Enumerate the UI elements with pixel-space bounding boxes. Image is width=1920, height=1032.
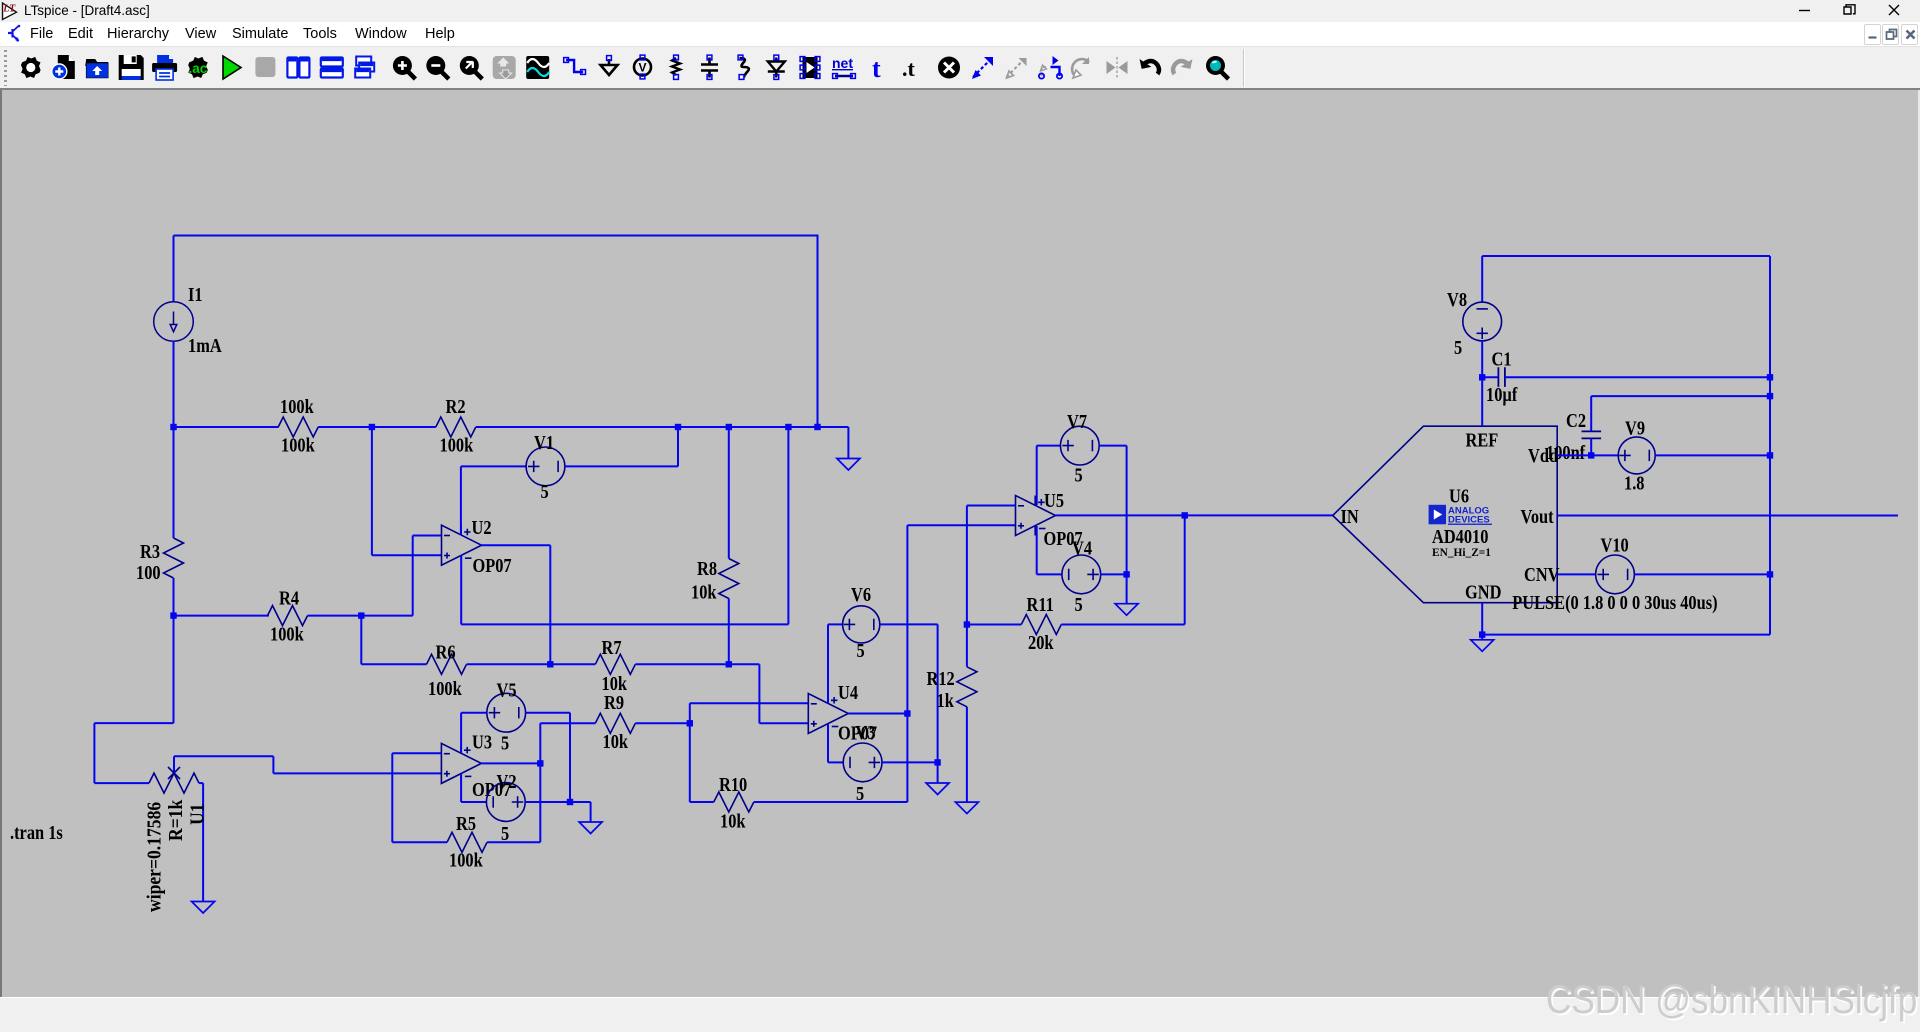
toolbar icon: move bbox=[1039, 56, 1062, 79]
wire V10 right lead to rail bbox=[1634, 573, 1770, 575]
wire stub down to ground bbox=[590, 802, 592, 822]
wire V1 minus lead down to U2 V+ pin bbox=[460, 466, 462, 534]
toolbar icon: find bbox=[1206, 56, 1229, 79]
wire V3 right lead bbox=[882, 761, 938, 763]
svg-text:10k: 10k bbox=[720, 810, 746, 832]
capacitor C1 bbox=[1498, 367, 1505, 387]
resistor R12 bbox=[957, 667, 977, 707]
resistor R2 bbox=[436, 417, 476, 437]
wire U3 V- pin down bbox=[460, 774, 462, 802]
toolbar icon: redo (disabled) bbox=[1173, 57, 1192, 74]
wire R8 bottom lead bbox=[728, 599, 730, 665]
svg-text:R3: R3 bbox=[140, 541, 160, 563]
junction top-rail drop on main node bbox=[814, 424, 820, 430]
svg-text:U1: U1 bbox=[187, 803, 209, 825]
wire inverting node to U2 riser bbox=[361, 615, 412, 617]
wire U5 V- pin down bbox=[1036, 526, 1038, 574]
junction R8 bottom on R7 node bbox=[726, 661, 732, 667]
wire top rail from I1 to right drop bbox=[174, 235, 819, 237]
svg-text:wiper=0.17586: wiper=0.17586 bbox=[144, 802, 166, 912]
ground pot branch bbox=[192, 902, 215, 914]
wire main node segment to R1 bbox=[174, 426, 279, 428]
wire into U2 inverting input bbox=[413, 535, 442, 537]
svg-text:5: 5 bbox=[1075, 464, 1083, 486]
wire R10 left lead bbox=[690, 801, 714, 803]
wire into U5 inverting input bbox=[967, 505, 1016, 507]
wire V1 branch riser bbox=[677, 427, 679, 466]
svg-text:10µf: 10µf bbox=[1486, 384, 1518, 406]
svg-text:V2: V2 bbox=[497, 771, 517, 793]
toolbar icon: waveform viewer bbox=[526, 56, 549, 79]
wire R4 left lead bbox=[174, 615, 269, 617]
svg-text:R2: R2 bbox=[446, 396, 466, 418]
toolbar icon: print (printer) bbox=[152, 55, 177, 80]
wire U4 output bbox=[848, 713, 907, 715]
wire wiper stub bbox=[173, 756, 175, 772]
op-amp U3 bbox=[441, 743, 481, 783]
wire I1 top lead bbox=[173, 236, 175, 303]
wire R4 right lead bbox=[308, 615, 362, 617]
toolbar icon: place text bbox=[872, 54, 881, 83]
junction V5/V2 supply return bbox=[567, 799, 573, 805]
svg-text:R7: R7 bbox=[602, 637, 622, 659]
junction C1 on REF branch bbox=[1479, 374, 1485, 380]
Analog Devices logo bbox=[1429, 505, 1492, 526]
wire R11 feedback riser bbox=[1184, 515, 1186, 624]
junction V9 on rail bbox=[1767, 452, 1773, 458]
wire V1 right lead bbox=[565, 465, 679, 467]
wire R7 right lead bbox=[635, 663, 759, 665]
toolbar icon: zoom full extents bbox=[460, 56, 483, 79]
svg-text:R4: R4 bbox=[279, 587, 299, 609]
toolbar icon: tile vertical bbox=[287, 58, 309, 78]
wire V6 return drop bbox=[937, 624, 939, 783]
junction U2 feedback on R6-R7 wire bbox=[547, 661, 553, 667]
wire U5 output to ADC IN bbox=[1056, 514, 1333, 516]
app icon bbox=[0, 0, 24, 22]
wire C2 top lead bbox=[1590, 396, 1592, 431]
wire V2 left lead bbox=[461, 801, 487, 803]
op-amp U2 bbox=[442, 525, 482, 565]
toolbar icon: place ground bbox=[601, 56, 618, 75]
svg-text:100k: 100k bbox=[281, 434, 315, 456]
wire C2 bottom lead bbox=[1590, 438, 1592, 455]
wire feedback riser R5 to R9 bbox=[539, 723, 541, 842]
wire V4 left lead bbox=[1037, 573, 1063, 575]
wire right supply rail bbox=[1769, 256, 1771, 635]
wire V8 top lead bbox=[1481, 256, 1483, 302]
svg-text:U2: U2 bbox=[472, 517, 492, 539]
svg-text:5: 5 bbox=[1454, 337, 1462, 359]
svg-text:5: 5 bbox=[501, 823, 509, 845]
toolbar icon: save (floppy) bbox=[119, 55, 144, 80]
junction U5 output / R11 feedback bbox=[1182, 512, 1188, 518]
wire V8 top to right rail bbox=[1482, 255, 1770, 257]
svg-text:U5: U5 bbox=[1044, 490, 1064, 512]
toolbar icon: tile horizontal bbox=[321, 58, 343, 78]
svg-text:AD4010: AD4010 bbox=[1432, 526, 1488, 548]
resistor R6 bbox=[427, 654, 467, 674]
svg-text:C2: C2 bbox=[1566, 410, 1586, 432]
wire R9 right lead bbox=[635, 722, 690, 724]
wire U2 output bbox=[482, 544, 551, 546]
op-amp U5 bbox=[1016, 496, 1056, 536]
svg-text:GND: GND bbox=[1465, 581, 1501, 603]
wire CNV pin to V10 bbox=[1557, 573, 1595, 575]
wire V6 to U4 V+ pin bbox=[827, 624, 829, 703]
resistor R11 bbox=[1021, 615, 1061, 635]
voltage source V2 bbox=[486, 783, 525, 822]
toolbar icon: place resistor bbox=[672, 55, 680, 79]
wire V5 right lead bbox=[525, 712, 570, 714]
toolbar icon: zoom in bbox=[393, 56, 416, 79]
wire R10 right lead to output riser bbox=[754, 801, 908, 803]
wire Vdd pin to V9 bbox=[1557, 454, 1618, 456]
wire stub down to ground bbox=[847, 427, 849, 459]
resistor R4 bbox=[268, 606, 308, 626]
wire C2 top lead to rail bbox=[1591, 395, 1770, 397]
wire V4 right lead bbox=[1100, 573, 1126, 575]
wire inverting node riser/drop bbox=[689, 703, 691, 802]
wire V8 bottom / REF pin lead bbox=[1481, 341, 1483, 426]
voltage source V1 bbox=[526, 447, 565, 486]
wire R8 top lead bbox=[728, 427, 730, 559]
resistor R8 bbox=[719, 559, 739, 599]
svg-text:1mA: 1mA bbox=[188, 335, 222, 357]
junction I1 / main node bbox=[170, 424, 176, 430]
toolbar icon: cascade windows bbox=[355, 57, 374, 78]
svg-text:R5: R5 bbox=[456, 813, 476, 835]
svg-text:1.8: 1.8 bbox=[1624, 472, 1644, 494]
wire R11 left lead bbox=[967, 624, 1021, 626]
voltage source V8 bbox=[1463, 302, 1502, 341]
svg-text:100k: 100k bbox=[440, 434, 474, 456]
wire pot left loop top bbox=[94, 722, 173, 724]
toolbar icon: place diode bbox=[768, 55, 785, 79]
resistor R7 bbox=[595, 654, 635, 674]
ground U4 supplies bbox=[926, 783, 949, 795]
ground R12 bbox=[955, 802, 978, 814]
svg-text:R11: R11 bbox=[1027, 594, 1054, 616]
wire V3 left lead bbox=[828, 761, 843, 763]
svg-text:5: 5 bbox=[857, 640, 865, 662]
toolbar icon: mirror (disabled) bbox=[1107, 57, 1128, 78]
wire wiper jog down bbox=[272, 756, 274, 773]
wire U5 inverting node drop to R12 bbox=[966, 506, 968, 667]
wire R11 right lead bbox=[1061, 624, 1184, 626]
toolbar icon: drag (disabled) bbox=[1072, 57, 1089, 78]
toolbar icon: edit simulation cmd (.ac gear) bbox=[184, 53, 211, 82]
svg-text:V1: V1 bbox=[534, 432, 554, 454]
wire V5 left lead bbox=[461, 712, 487, 714]
svg-text:Vout: Vout bbox=[1521, 506, 1554, 528]
svg-text:CNV: CNV bbox=[1524, 564, 1559, 586]
wire inverting node down to R6 bbox=[360, 616, 362, 665]
voltage source V3 bbox=[843, 743, 882, 782]
svg-text:V5: V5 bbox=[497, 679, 517, 701]
wire V1 left lead bbox=[461, 465, 527, 467]
junction R4 tap on R3 branch bbox=[170, 612, 176, 618]
junction C2 on Vdd wire bbox=[1588, 452, 1594, 458]
wire V5 return drop bbox=[569, 713, 571, 802]
junction V6/V3 supply return bbox=[934, 759, 940, 765]
svg-text:V8: V8 bbox=[1447, 289, 1467, 311]
wire into U5 noninverting input bbox=[907, 524, 1015, 526]
svg-text:U6: U6 bbox=[1449, 485, 1469, 507]
wire Vout net bbox=[1557, 515, 1898, 517]
toolbar icon: open (folder) bbox=[85, 59, 108, 78]
wire V6 left lead bbox=[828, 623, 843, 625]
svg-text:100k: 100k bbox=[449, 849, 483, 871]
toolbar icon: new schematic (document+) bbox=[52, 55, 75, 79]
wire R3 top lead bbox=[173, 427, 175, 538]
wire R9 left lead bbox=[540, 722, 595, 724]
junction C1 on rail bbox=[1767, 374, 1773, 380]
resistor R3 bbox=[164, 538, 184, 578]
wire drop to U4 noninverting input bbox=[758, 664, 760, 723]
junction R1-R2 / U2 noninverting tap bbox=[369, 424, 375, 430]
ground U3 supplies bbox=[579, 822, 602, 834]
wire V6 right lead bbox=[880, 623, 938, 625]
wire R2 to ground stub corner bbox=[476, 426, 849, 428]
resistor R1 (named 100k) bbox=[278, 417, 318, 437]
wire I1 bottom lead bbox=[173, 341, 175, 427]
junction U2 negative-rail riser on main node bbox=[785, 424, 791, 430]
svg-text:U4: U4 bbox=[838, 682, 858, 704]
toolbar icon: delete (scissors) bbox=[938, 57, 960, 79]
wire C1 right lead to rail bbox=[1505, 376, 1770, 378]
junction U3 output / feedback riser bbox=[537, 760, 543, 766]
voltage source V9 bbox=[1618, 437, 1655, 474]
svg-text:.tran 1s: .tran 1s bbox=[10, 822, 63, 844]
svg-text:OP07: OP07 bbox=[473, 555, 512, 577]
wire riser to main node bbox=[787, 427, 789, 624]
title bar bbox=[0, 0, 1920, 22]
wire V7 right lead bbox=[1099, 445, 1127, 447]
wire V5 to U3 V+ pin bbox=[460, 713, 462, 753]
wire U4 V- pin down bbox=[827, 724, 829, 762]
wire pot left loop vertical bbox=[93, 723, 95, 783]
svg-text:R10: R10 bbox=[719, 774, 747, 796]
resistor R9 bbox=[595, 713, 635, 733]
junction C2 on rail bbox=[1767, 393, 1773, 399]
junction V7/V4 supply return bbox=[1123, 571, 1129, 577]
toolbar icon: halt (disabled grey) bbox=[255, 57, 275, 77]
wire vertical drop to main node bbox=[817, 236, 819, 428]
svg-text:V6: V6 bbox=[851, 584, 871, 606]
junction U4 output / U5 riser bbox=[904, 710, 910, 716]
menu bar bbox=[0, 22, 1920, 47]
svg-text:100k: 100k bbox=[428, 678, 462, 700]
toolbar icon: label net bbox=[634, 55, 651, 79]
toolbar icon: paste (disabled) bbox=[1007, 58, 1027, 78]
svg-text:IN: IN bbox=[1341, 506, 1359, 528]
wire U2 output feedback drop bbox=[549, 545, 551, 664]
svg-text:EN_Hi_Z=1: EN_Hi_Z=1 bbox=[1432, 546, 1491, 559]
wire into U2 noninverting input bbox=[372, 554, 442, 556]
wire R1 to R2 bbox=[318, 426, 436, 428]
voltage source V4 bbox=[1062, 555, 1101, 594]
watermark bbox=[1546, 980, 1917, 1020]
wire V7 left lead bbox=[1037, 445, 1061, 447]
wire U3 inverting feedback drop bbox=[391, 753, 393, 842]
capacitor C2 bbox=[1582, 431, 1602, 438]
svg-text:5: 5 bbox=[541, 481, 549, 503]
wire supply return drop bbox=[1126, 446, 1128, 604]
svg-text:R12: R12 bbox=[927, 668, 955, 690]
svg-text:R9: R9 bbox=[604, 692, 624, 714]
junction R4 / U2 inverting node bbox=[358, 612, 364, 618]
wire GND pin down bbox=[1481, 603, 1483, 640]
toolbar icon: undo bbox=[1140, 57, 1159, 74]
wire R6 left lead bbox=[361, 663, 426, 665]
svg-text:V3: V3 bbox=[856, 722, 876, 744]
wire R12 bottom lead to ground bbox=[966, 707, 968, 802]
junction GND pin / rail return bbox=[1479, 631, 1485, 637]
toolbar icon: control panel (gear) bbox=[17, 53, 44, 82]
wire into U3 inverting input bbox=[392, 752, 441, 754]
wire pot left lead bbox=[94, 782, 149, 784]
toolbar icon: spice directive bbox=[902, 56, 916, 81]
junction R9/R10/U4 inverting node bbox=[687, 720, 693, 726]
toolbar icon: zoom out bbox=[426, 56, 449, 79]
svg-text:R6: R6 bbox=[436, 641, 456, 663]
svg-text:100k: 100k bbox=[270, 623, 304, 645]
svg-text:10k: 10k bbox=[691, 581, 717, 603]
ground main node bbox=[837, 459, 860, 471]
toolbar icon: place capacitor bbox=[701, 55, 718, 79]
wire into U4 inverting input bbox=[690, 702, 809, 704]
status bar bbox=[0, 997, 1920, 1032]
svg-text:20k: 20k bbox=[1028, 632, 1054, 654]
svg-text:PULSE(0 1.8 0 0 0 30us 40us): PULSE(0 1.8 0 0 0 30us 40us) bbox=[1512, 592, 1717, 615]
wire V2 right lead to ground stub bbox=[525, 801, 591, 803]
svg-text:V10: V10 bbox=[1601, 534, 1629, 556]
toolbar icon: autorange (disabled) bbox=[493, 56, 516, 79]
potentiometer U1 bbox=[149, 767, 199, 793]
wire riser U4 output to U5 noninverting bbox=[906, 525, 908, 802]
toolbar icon: run (green arrow) bbox=[223, 56, 241, 79]
toolbar icon: name net bbox=[832, 55, 855, 78]
wire pot right terminal to ground bbox=[202, 783, 204, 901]
wire V9 right lead to rail bbox=[1655, 454, 1770, 456]
svg-text:10k: 10k bbox=[603, 731, 629, 753]
wire C1 left lead bbox=[1482, 376, 1498, 378]
toolbar icon: place inductor bbox=[738, 55, 749, 79]
wire rail return bottom bbox=[1482, 634, 1770, 636]
voltage source V5 bbox=[487, 693, 526, 732]
svg-text:U3: U3 bbox=[472, 731, 492, 753]
svg-text:I1: I1 bbox=[188, 284, 203, 306]
wire R5 right lead bbox=[487, 841, 540, 843]
ground U6 GND bbox=[1471, 640, 1494, 652]
voltage source V10 bbox=[1596, 555, 1635, 594]
svg-text:1k: 1k bbox=[937, 690, 955, 712]
toolbar icon: draw wire bbox=[564, 58, 586, 75]
svg-text:R=1k: R=1k bbox=[165, 799, 187, 841]
svg-text:C1: C1 bbox=[1492, 348, 1512, 370]
junction R11 tap on U5 inverting node bbox=[964, 621, 970, 627]
wire pot right lead bbox=[199, 782, 203, 784]
svg-text:5: 5 bbox=[856, 783, 864, 805]
wire riser to U2 inverting input bbox=[412, 536, 414, 616]
op-amp U4 bbox=[808, 694, 848, 734]
ADC U6 AD4010 symbol bbox=[1333, 426, 1558, 603]
toolbar icon: place component bbox=[800, 57, 820, 79]
junction V1 branch on main node bbox=[675, 424, 681, 430]
svg-text:R8: R8 bbox=[697, 558, 717, 580]
svg-text:REF: REF bbox=[1466, 429, 1499, 451]
voltage source V6 bbox=[843, 606, 880, 643]
svg-text:100k: 100k bbox=[280, 396, 314, 418]
voltage source V7 bbox=[1060, 426, 1099, 465]
wire wiper into U3 noninverting input bbox=[273, 772, 441, 774]
svg-text:100nf: 100nf bbox=[1546, 442, 1586, 464]
wire R6 to R7 bbox=[467, 663, 596, 665]
MDI child window buttons bbox=[1864, 24, 1881, 45]
wire U3 output bbox=[481, 762, 540, 764]
toolbar icon: duplicate (copy) bbox=[972, 57, 993, 79]
wire U2 V- rail to riser bbox=[461, 623, 788, 625]
wire wiper to U3 jog top bbox=[174, 755, 273, 757]
toolbar bbox=[0, 47, 1920, 90]
junction V10 on rail bbox=[1767, 571, 1773, 577]
window buttons bbox=[1780, 0, 1920, 22]
wire into U4 noninverting input bbox=[759, 722, 808, 724]
svg-text:5: 5 bbox=[501, 732, 509, 754]
svg-text:5: 5 bbox=[1075, 594, 1083, 616]
svg-text:V4: V4 bbox=[1072, 537, 1092, 559]
svg-text:V7: V7 bbox=[1067, 411, 1087, 433]
ground U5 supplies bbox=[1115, 604, 1138, 616]
wire U2 V- pin down bbox=[460, 555, 462, 624]
wire R5 left lead bbox=[392, 841, 447, 843]
wire R3 bottom lead down to pot loop bbox=[173, 578, 175, 723]
svg-text:100: 100 bbox=[136, 562, 161, 584]
junction R8 top on main node bbox=[726, 424, 732, 430]
svg-text:V9: V9 bbox=[1625, 417, 1645, 439]
current source I1 bbox=[154, 302, 194, 342]
wire main node to U2 noninverting input riser bbox=[371, 427, 373, 555]
wire V7 to U5 V+ pin bbox=[1036, 446, 1038, 505]
resistor R5 bbox=[447, 832, 487, 852]
resistor R10 bbox=[714, 792, 754, 812]
